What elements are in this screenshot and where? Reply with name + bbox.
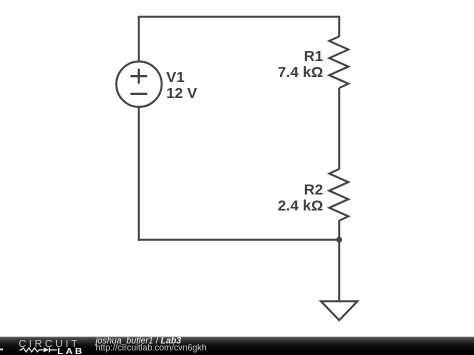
- wire: bottom horizontal rail: [138, 239, 339, 241]
- logo diode: [44, 347, 49, 352]
- svg-text:R2: R2: [304, 181, 323, 198]
- ground: [321, 301, 358, 320]
- wire: V1 bottom lead down to bottom rail: [138, 107, 140, 241]
- wire: V1 top lead up to top-left corner: [138, 17, 140, 62]
- node: junction at R2 bottom: [336, 237, 342, 243]
- svg-text:R1: R1: [304, 48, 323, 65]
- wire: R1 bottom to R2 top: [338, 88, 340, 170]
- svg-text:LAB: LAB: [57, 347, 84, 355]
- svg-text:7.4 kΩ: 7.4 kΩ: [278, 64, 323, 81]
- wire: R2 bottom lead to bottom rail: [338, 220, 340, 239]
- svg-text:V1: V1: [166, 69, 184, 86]
- footer bar: [0, 337, 474, 355]
- wire: junction down to ground: [338, 240, 340, 302]
- svg-text:http://circuitlab.com/cvn6gkh: http://circuitlab.com/cvn6gkh: [96, 343, 207, 353]
- resistor R2: [329, 169, 348, 221]
- svg-text:2.4 kΩ: 2.4 kΩ: [278, 198, 323, 215]
- wire: top horizontal from corner to R1: [138, 16, 339, 18]
- logo left edge dash: [0, 348, 3, 350]
- resistor R1: [329, 36, 348, 88]
- wire: R1 top lead: [338, 16, 340, 37]
- svg-text:12 V: 12 V: [166, 85, 197, 102]
- logo resistor zigzag: [20, 348, 44, 352]
- voltage source V1: [116, 61, 161, 106]
